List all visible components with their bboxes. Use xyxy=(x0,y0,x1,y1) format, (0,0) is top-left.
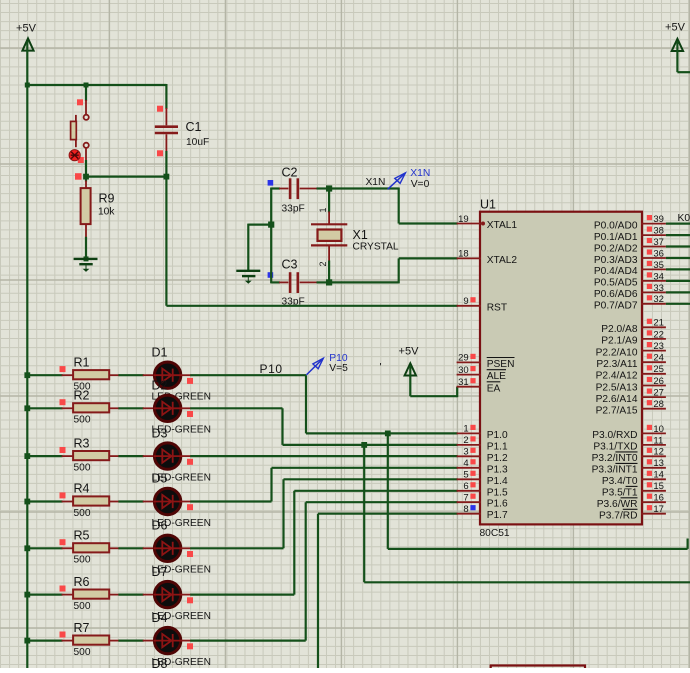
svg-text:4: 4 xyxy=(463,458,468,469)
svg-text:6: 6 xyxy=(463,481,468,492)
svg-text:39: 39 xyxy=(653,214,664,225)
resistor R4 xyxy=(62,496,120,505)
node state square D2 right xyxy=(187,411,193,417)
wire R9 to ground xyxy=(85,237,87,260)
svg-text:500: 500 xyxy=(74,647,91,658)
pin 2 (P1.1) xyxy=(457,435,508,452)
crystal X1 xyxy=(311,189,347,283)
svg-text:17: 17 xyxy=(653,504,664,515)
svg-text:P1.6: P1.6 xyxy=(487,499,508,510)
svg-text:P3.0/RXD: P3.0/RXD xyxy=(592,430,637,441)
pin 14 (P3.4/T0) xyxy=(602,470,666,487)
pin 27 (P2.6/A14) xyxy=(596,388,666,405)
node state square D5 right xyxy=(187,504,193,510)
node junction button branch xyxy=(84,83,89,88)
svg-text:2: 2 xyxy=(318,261,328,266)
pin 24 (P2.3/A11) xyxy=(596,353,666,370)
wire R3 to D3 xyxy=(118,455,143,457)
svg-text:10uF: 10uF xyxy=(186,137,209,148)
wire top horizontal rail to C1 xyxy=(26,84,166,86)
wire D5 to chip pin xyxy=(190,468,457,502)
wire RST net xyxy=(166,176,457,306)
capacitor C2 xyxy=(271,178,329,199)
node junction rail/R5 xyxy=(24,545,30,551)
svg-text:P0.7/AD7: P0.7/AD7 xyxy=(594,301,638,312)
svg-text:CRYSTAL: CRYSTAL xyxy=(353,242,399,253)
svg-text:+5V: +5V xyxy=(399,346,420,358)
op-amp U1 body (80C51) xyxy=(480,212,642,525)
node state square R1 left xyxy=(60,366,66,372)
wire R9 top stub xyxy=(85,177,87,182)
wire rail to R6 xyxy=(27,593,62,595)
svg-text:P3.5/T1: P3.5/T1 xyxy=(602,488,638,499)
svg-text:19: 19 xyxy=(458,214,469,225)
power +5V (top-right) xyxy=(665,22,686,52)
svg-text:D3: D3 xyxy=(152,426,168,440)
wire R6 to D7 xyxy=(118,593,143,595)
wire R2 to D2 xyxy=(118,407,143,409)
svg-text:+5V: +5V xyxy=(665,22,686,34)
svg-text:7: 7 xyxy=(463,493,468,504)
svg-text:R7: R7 xyxy=(74,621,90,635)
svg-text:2: 2 xyxy=(463,435,468,446)
resistor R6 xyxy=(62,590,120,599)
LED D5 xyxy=(143,488,192,514)
node junction P1.0 branch xyxy=(385,431,391,437)
svg-text:P3.4/T0: P3.4/T0 xyxy=(602,476,638,487)
pin 32 (P0.7/AD7) xyxy=(594,294,666,311)
svg-text:10k: 10k xyxy=(98,207,115,218)
node state square R4 left xyxy=(60,492,66,498)
pin 3 (P1.2) xyxy=(457,447,508,464)
svg-text:P0.6/AD6: P0.6/AD6 xyxy=(594,289,638,300)
pin 7 (P1.6) xyxy=(457,493,508,510)
wire junction to ground stem xyxy=(248,224,272,226)
resistor R2 xyxy=(62,403,120,412)
wire P0 pin to edge xyxy=(666,234,690,236)
svg-text:RST: RST xyxy=(487,302,507,313)
pin 25 (P2.4/A12) xyxy=(596,364,666,381)
wire D4 to chip pin xyxy=(190,502,457,640)
pin 19 (XTAL1) xyxy=(457,214,518,231)
svg-text:R6: R6 xyxy=(74,575,90,589)
svg-text:16: 16 xyxy=(653,493,664,504)
pin 23 (P2.2/A10) xyxy=(596,341,666,358)
probe P10 (blue arrow) xyxy=(306,358,323,375)
node junction rail/R2 xyxy=(24,405,30,411)
svg-text:P1.4: P1.4 xyxy=(487,476,508,487)
svg-text:D6: D6 xyxy=(152,519,168,533)
svg-text:P1.5: P1.5 xyxy=(487,487,508,498)
svg-text:C3: C3 xyxy=(282,258,298,272)
LED D3 xyxy=(143,443,192,469)
svg-text:27: 27 xyxy=(653,388,664,399)
svg-text:V=5: V=5 xyxy=(329,363,348,374)
svg-text:R5: R5 xyxy=(74,529,90,543)
wire C1 top branch xyxy=(165,84,167,109)
pin 16 (P3.6/WR) xyxy=(597,493,666,510)
pin 36 (P0.3/AD3) xyxy=(594,248,666,265)
svg-text:P2.6/A14: P2.6/A14 xyxy=(596,394,638,405)
svg-text:C2: C2 xyxy=(282,166,298,180)
svg-text:P2.4/A12: P2.4/A12 xyxy=(596,371,638,382)
svg-text:P0.0/AD0: P0.0/AD0 xyxy=(594,220,638,231)
wire D3 to P1.2 xyxy=(190,455,457,457)
node state square C1 top xyxy=(157,106,163,112)
pushbutton (reset) xyxy=(71,100,89,161)
svg-text:500: 500 xyxy=(74,555,91,566)
svg-text:ALE: ALE xyxy=(487,371,506,382)
node blue state square C3 left xyxy=(268,272,274,278)
node blue state square C2 left xyxy=(268,180,274,186)
svg-text:XTAL2: XTAL2 xyxy=(487,255,518,266)
node junction rail/R7 xyxy=(24,638,30,644)
pin 10 (P3.0/RXD) xyxy=(592,424,666,441)
svg-text:U1: U1 xyxy=(480,198,496,212)
ground (R9) xyxy=(74,256,98,272)
svg-text:P0.1/AD1: P0.1/AD1 xyxy=(594,232,638,243)
node junction rail/top-wire xyxy=(25,83,30,88)
svg-text:P0.2/AD2: P0.2/AD2 xyxy=(594,243,638,254)
svg-text:D1: D1 xyxy=(152,345,168,359)
node state square D7 right xyxy=(187,597,193,603)
LED D2 xyxy=(143,395,192,421)
LED D4 xyxy=(143,627,192,653)
pin 22 (P2.1/A9) xyxy=(601,329,666,346)
pin 18 (XTAL2) xyxy=(457,249,518,266)
svg-text:P1.7: P1.7 xyxy=(487,510,508,521)
wire rail to R1 xyxy=(27,374,62,376)
wire R5 to D6 xyxy=(118,547,143,549)
resistor R9 xyxy=(81,181,91,238)
node junction crystal top xyxy=(326,185,332,191)
svg-text:+5V: +5V xyxy=(16,23,37,35)
pin 17 (P3.7/RD) xyxy=(599,504,666,521)
pin 5 (P1.4) xyxy=(457,470,508,487)
wire rail to R5 xyxy=(27,547,62,549)
wire EA to +5V xyxy=(410,366,457,397)
svg-text:12: 12 xyxy=(653,447,664,458)
pin 4 (P1.3) xyxy=(457,458,508,475)
node junction P1.1 branch xyxy=(361,442,367,448)
partial component box (bottom) xyxy=(491,666,585,669)
wire R4 to D5 xyxy=(118,500,143,502)
wire button bottom to junction xyxy=(85,160,87,178)
wire P0 pin to edge xyxy=(666,303,690,305)
svg-text:34: 34 xyxy=(653,271,664,282)
power +5V (EA) xyxy=(399,346,420,376)
svg-text:EA: EA xyxy=(487,383,501,394)
node state square D3 right xyxy=(187,459,193,465)
wire XTAL2 net xyxy=(328,258,458,283)
svg-text:P10: P10 xyxy=(260,362,283,376)
resistor R7 xyxy=(62,636,120,645)
wire rail to R7 xyxy=(27,639,62,641)
wire +5V rail vertical left xyxy=(26,41,28,668)
node junction rail/R1 xyxy=(24,372,30,378)
wire P0 pin to edge xyxy=(666,245,690,247)
svg-text:P0.5/AD5: P0.5/AD5 xyxy=(594,278,638,289)
pin 28 (P2.7/A15) xyxy=(596,399,666,416)
node state square D1 right xyxy=(187,378,193,384)
svg-text:500: 500 xyxy=(74,508,91,519)
svg-text:R9: R9 xyxy=(99,192,115,206)
node junction C1/RST xyxy=(164,174,170,180)
node junction cap-gnd xyxy=(268,222,274,228)
svg-text:PSEN: PSEN xyxy=(487,359,515,370)
wire C2-C3 left vertical xyxy=(270,188,272,284)
resistor R5 xyxy=(62,543,120,552)
wire +5V top-right xyxy=(677,41,690,72)
wire button top stub xyxy=(85,85,87,101)
wire P1.1 branch to right edge xyxy=(364,445,690,582)
pin 39 (P0.0/AD0) xyxy=(594,214,666,231)
svg-text:R4: R4 xyxy=(74,482,90,496)
pin 6 (P1.5) xyxy=(457,481,508,498)
svg-text:P1.1: P1.1 xyxy=(487,441,508,452)
svg-text:500: 500 xyxy=(74,462,91,473)
node state square D6 right xyxy=(187,551,193,557)
pin 26 (P2.5/A13) xyxy=(596,376,666,393)
node junction crystal bottom xyxy=(326,279,332,285)
svg-text:9: 9 xyxy=(463,296,468,307)
svg-text:': ' xyxy=(380,361,382,373)
node state square button bottom xyxy=(78,157,84,163)
svg-text:P3.7/RD: P3.7/RD xyxy=(599,511,638,522)
wire rail to R3 xyxy=(27,455,62,457)
node state square C1 bottom xyxy=(157,150,163,156)
wire D7 to chip pin xyxy=(190,491,457,595)
node state square R6 left xyxy=(60,586,66,592)
svg-text:P1.0: P1.0 xyxy=(487,430,508,441)
pin 21 (P2.0/A8) xyxy=(601,318,666,335)
LED D6 xyxy=(143,535,192,561)
wire P0 pin to edge xyxy=(666,280,690,282)
svg-text:8: 8 xyxy=(463,504,468,515)
svg-text:P3.1/TXD: P3.1/TXD xyxy=(593,442,637,453)
svg-text:D4: D4 xyxy=(152,611,168,625)
svg-text:X1: X1 xyxy=(353,228,368,242)
power +5V (top-left) xyxy=(16,23,37,51)
pin 34 (P0.5/AD5) xyxy=(594,271,666,288)
wire P0 pin to edge xyxy=(666,291,690,293)
pin 13 (P3.3/INT1) xyxy=(592,458,666,475)
svg-text:1: 1 xyxy=(318,207,328,212)
svg-text:28: 28 xyxy=(653,399,664,410)
wire XTAL1 net xyxy=(328,188,458,224)
wire rail to R4 xyxy=(27,500,62,502)
svg-text:D5: D5 xyxy=(152,472,168,486)
svg-text:30: 30 xyxy=(458,365,469,376)
pin 15 (P3.5/T1) xyxy=(602,481,666,498)
svg-text:24: 24 xyxy=(653,353,664,364)
svg-text:35: 35 xyxy=(653,260,664,271)
svg-text:D7: D7 xyxy=(152,565,168,579)
svg-text:P3.2/INT0: P3.2/INT0 xyxy=(592,453,638,464)
node state square R7 left xyxy=(60,632,66,638)
svg-text:22: 22 xyxy=(653,329,664,340)
svg-text:38: 38 xyxy=(653,226,664,237)
svg-text:33: 33 xyxy=(653,283,664,294)
svg-text:P3.6/WR: P3.6/WR xyxy=(597,499,638,510)
svg-text:P2.3/A11: P2.3/A11 xyxy=(596,359,637,370)
node state square D4 right xyxy=(187,643,193,649)
svg-text:X1N: X1N xyxy=(410,168,430,179)
resistor R1 xyxy=(62,370,120,379)
pin 30 (ALE) xyxy=(457,365,507,382)
capacitor C1 xyxy=(155,108,178,152)
wire D6 to chip pin xyxy=(190,479,457,548)
probe X1N (blue arrow) xyxy=(388,173,406,189)
wire P1.7 to bottom edge xyxy=(318,514,458,668)
svg-text:D2: D2 xyxy=(152,379,168,393)
svg-text:33pF: 33pF xyxy=(282,204,305,215)
svg-text:14: 14 xyxy=(653,470,664,481)
svg-text:P2.5/A13: P2.5/A13 xyxy=(596,382,638,393)
svg-text:11: 11 xyxy=(653,435,663,446)
svg-text:P1.2: P1.2 xyxy=(487,453,508,464)
capacitor C3 xyxy=(271,272,329,293)
node state square at reset junction xyxy=(75,173,82,180)
svg-text:P2.0/A8: P2.0/A8 xyxy=(601,324,638,335)
svg-text:10: 10 xyxy=(653,424,664,435)
node junction rail/R4 xyxy=(24,499,30,505)
svg-text:31: 31 xyxy=(458,377,469,388)
pin 1 (P1.0) xyxy=(457,424,508,441)
svg-text:36: 36 xyxy=(653,248,664,259)
pin 31 (EA) xyxy=(457,377,501,394)
svg-text:P0.4/AD4: P0.4/AD4 xyxy=(594,266,638,277)
svg-text:500: 500 xyxy=(74,415,91,426)
svg-text:25: 25 xyxy=(653,364,664,375)
pin 35 (P0.4/AD4) xyxy=(594,260,666,277)
pin 37 (P0.2/AD2) xyxy=(594,237,666,254)
wire R1 to D1 xyxy=(118,374,143,376)
node junction rail/R3 xyxy=(24,453,30,459)
svg-text:500: 500 xyxy=(74,601,91,612)
svg-text:P0.3/AD3: P0.3/AD3 xyxy=(594,255,638,266)
svg-text:26: 26 xyxy=(653,376,664,387)
svg-text:P1.3: P1.3 xyxy=(487,464,508,475)
wire C1 bottom to junction xyxy=(165,151,167,178)
svg-text:29: 29 xyxy=(458,353,469,364)
svg-text:21: 21 xyxy=(653,318,664,329)
svg-text:D8: D8 xyxy=(152,657,168,668)
svg-text:37: 37 xyxy=(653,237,664,248)
wire D2 to chip pin xyxy=(190,408,457,445)
svg-text:15: 15 xyxy=(653,481,664,492)
node state square R5 left xyxy=(60,539,66,545)
pin 12 (P3.2/INT0) xyxy=(592,447,666,464)
wire R7 to D4 xyxy=(118,639,143,641)
pin XTAL1 inner marker xyxy=(481,222,485,226)
node state square R3 left xyxy=(60,447,66,453)
svg-text:13: 13 xyxy=(653,458,664,469)
wire reset junction to C1 bottom xyxy=(86,176,166,178)
pin 33 (P0.6/AD6) xyxy=(594,283,666,300)
wire D1 to chip pin xyxy=(190,375,457,433)
svg-text:P2.1/A9: P2.1/A9 xyxy=(601,336,638,347)
svg-text:P2.7/A15: P2.7/A15 xyxy=(596,406,638,417)
wire P0 pin to edge xyxy=(666,223,690,225)
svg-text:K0: K0 xyxy=(678,213,690,224)
svg-text:XTAL1: XTAL1 xyxy=(487,220,518,231)
svg-text:32: 32 xyxy=(653,294,664,305)
pin 38 (P0.1/AD1) xyxy=(594,226,666,243)
pin 8 (P1.7) xyxy=(457,504,508,521)
wire P0 pin to edge xyxy=(666,268,690,270)
node junction rail/R6 xyxy=(24,592,30,598)
node state square button top xyxy=(77,99,83,105)
svg-text:R1: R1 xyxy=(74,355,90,369)
svg-text:18: 18 xyxy=(458,249,469,260)
ground (C2/C3) xyxy=(236,271,260,284)
LED D7 xyxy=(143,581,192,607)
svg-text:5: 5 xyxy=(463,470,468,481)
node state square R2 left xyxy=(60,399,66,405)
svg-text:X1N: X1N xyxy=(366,177,386,188)
pin 29 (PSEN) xyxy=(457,353,515,370)
wire rail to R2 xyxy=(27,407,62,409)
svg-text:R3: R3 xyxy=(74,436,90,450)
svg-text:23: 23 xyxy=(653,341,664,352)
svg-text:P2.2/A10: P2.2/A10 xyxy=(596,347,638,358)
svg-text:C1: C1 xyxy=(186,120,202,134)
svg-text:V=0: V=0 xyxy=(411,179,430,190)
wire P0 pin to edge xyxy=(666,257,690,259)
svg-text:3: 3 xyxy=(463,447,468,458)
LED D1 xyxy=(143,362,192,388)
svg-text:1: 1 xyxy=(463,424,468,435)
node junction button/R9/wire xyxy=(83,174,89,180)
wire P1.0 branch to right edge xyxy=(388,433,688,549)
pin 11 (P3.1/TXD) xyxy=(593,435,666,452)
pin 9 (RST) xyxy=(457,296,507,313)
svg-text:R2: R2 xyxy=(74,389,90,403)
resistor R3 xyxy=(62,451,120,460)
svg-text:P3.3/INT1: P3.3/INT1 xyxy=(592,465,638,476)
node red press marker xyxy=(69,150,80,161)
svg-text:80C51: 80C51 xyxy=(480,528,510,539)
